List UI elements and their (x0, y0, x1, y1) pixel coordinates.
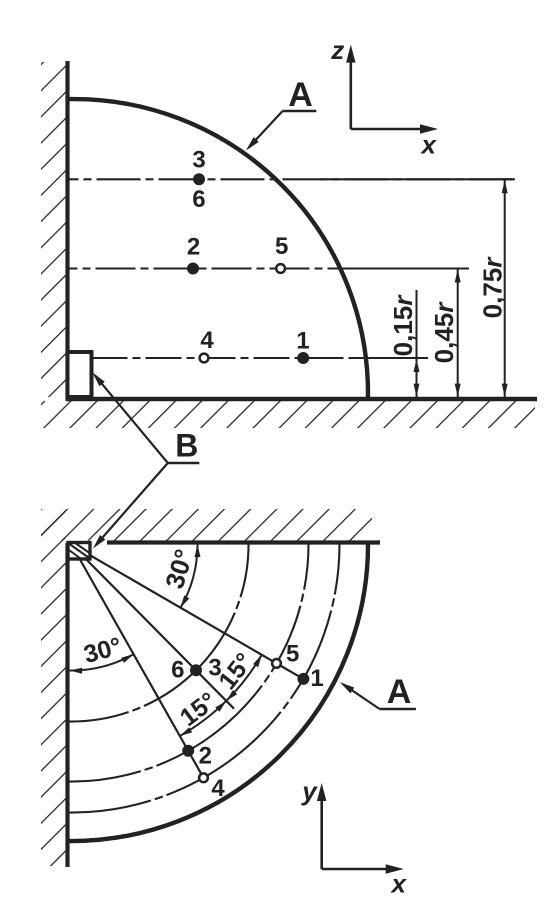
svg-text:4: 4 (200, 327, 214, 354)
svg-text:5: 5 (275, 233, 288, 260)
svg-text:A: A (387, 673, 412, 711)
svg-text:6: 6 (171, 657, 184, 684)
svg-text:2: 2 (187, 234, 200, 261)
svg-text:1: 1 (310, 665, 323, 692)
svg-text:y: y (300, 776, 318, 806)
svg-text:0,45r: 0,45r (429, 301, 459, 364)
svg-text:B: B (175, 428, 198, 464)
svg-text:x: x (419, 129, 437, 159)
svg-text:z: z (330, 35, 344, 65)
svg-text:1: 1 (296, 327, 309, 354)
svg-text:A: A (288, 76, 313, 114)
svg-text:0,15r: 0,15r (388, 294, 418, 357)
svg-text:4: 4 (211, 775, 225, 802)
svg-text:3: 3 (192, 147, 205, 174)
svg-text:0,75r: 0,75r (477, 256, 507, 319)
svg-text:x: x (389, 868, 407, 898)
svg-text:5: 5 (286, 641, 299, 668)
svg-text:6: 6 (192, 186, 205, 213)
svg-text:2: 2 (199, 743, 212, 770)
